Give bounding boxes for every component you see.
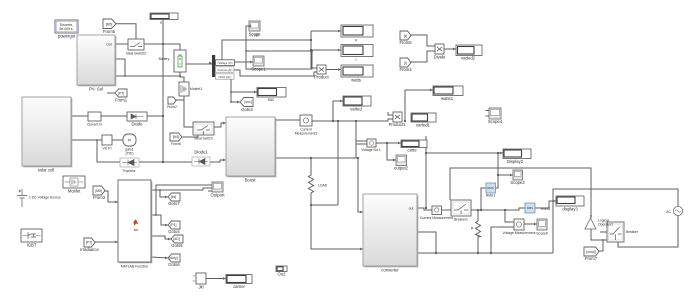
svg-text:Scope1: Scope1	[251, 67, 266, 72]
svg-text:Outport: Outport	[211, 193, 226, 198]
svg-text:Operator2: Operator2	[598, 223, 613, 227]
svg-text:Goto6: Goto6	[168, 262, 180, 267]
svg-text:Breaker1: Breaker1	[454, 218, 468, 222]
svg-text:LOAD: LOAD	[318, 184, 328, 188]
svg-text:Scope6: Scope6	[536, 232, 548, 236]
svg-text:IGBT: IGBT	[27, 243, 37, 248]
svg-text:MATLAB Function: MATLAB Function	[121, 265, 148, 269]
svg-text:RMS2: RMS2	[541, 207, 551, 211]
svg-text:Goto3: Goto3	[241, 107, 253, 112]
svg-text:Product: Product	[314, 75, 329, 80]
svg-text:Thyristor: Thyristor	[122, 169, 136, 173]
svg-text:[v]: [v]	[404, 34, 408, 38]
svg-text:Scope4: Scope4	[488, 119, 503, 124]
svg-text:[dD]: [dD]	[173, 237, 179, 241]
svg-text:Ideal Switch: Ideal Switch	[194, 137, 212, 141]
svg-text:5e-005 s.: 5e-005 s.	[59, 27, 73, 31]
svg-text:Diode1: Diode1	[194, 150, 208, 155]
svg-text:Scope3: Scope3	[510, 180, 525, 185]
svg-text:Mosfet1: Mosfet1	[190, 87, 202, 91]
svg-text:display3: display3	[562, 207, 578, 212]
svg-text:AC: AC	[666, 210, 671, 214]
svg-text:powergui: powergui	[58, 34, 75, 39]
svg-text:PI: PI	[128, 139, 131, 143]
svg-text:[P1]: [P1]	[170, 223, 176, 227]
svg-text:Current Measurement: Current Measurement	[420, 216, 453, 220]
svg-text:Breaker: Breaker	[626, 230, 639, 234]
svg-text:From1: From1	[115, 98, 128, 103]
svg-text:Diode: Diode	[132, 122, 144, 127]
svg-text:Goto4: Goto4	[168, 229, 180, 234]
svg-text:Voltage Measurement: Voltage Measurement	[503, 231, 536, 235]
svg-text:varted1: varted1	[416, 123, 431, 128]
svg-text:Divide: Divide	[434, 55, 446, 60]
svg-text:Boost: Boost	[245, 178, 257, 183]
svg-text:[M5]: [M5]	[106, 22, 113, 26]
svg-text:Goto5: Goto5	[171, 243, 183, 248]
svg-text:From3: From3	[93, 195, 106, 200]
svg-text:[soc]: [soc]	[244, 100, 251, 104]
svg-text:Product1: Product1	[389, 122, 406, 127]
svg-text:From5: From5	[103, 29, 116, 34]
svg-text:converter: converter	[381, 268, 399, 273]
svg-text:From8: From8	[399, 40, 412, 45]
svg-text:Scope: Scope	[249, 32, 262, 37]
svg-text:Voltage Nd 1: Voltage Nd 1	[361, 148, 381, 152]
svg-text:soc: soc	[268, 97, 275, 102]
svg-text:watts: watts	[351, 78, 361, 83]
svg-text:<SOC (%)>: <SOC (%)>	[218, 75, 232, 79]
svg-text:Out: Out	[106, 43, 112, 47]
svg-text:i: i	[356, 57, 357, 62]
svg-text:[int]: [int]	[171, 195, 177, 199]
svg-text:From7: From7	[585, 256, 598, 261]
svg-text:Jkl: Jkl	[198, 285, 203, 290]
svg-text:Battery: Battery	[159, 57, 170, 61]
svg-text:Ou2: Ou2	[278, 272, 287, 277]
svg-text:(PID): (PID)	[126, 152, 134, 156]
svg-text:out: out	[409, 207, 414, 211]
svg-text:[duty]: [duty]	[169, 256, 177, 260]
svg-text:From4: From4	[399, 67, 412, 72]
svg-text:PV- Sol: PV- Sol	[89, 87, 103, 92]
svg-text:<Voltage (V)>: <Voltage (V)>	[217, 61, 233, 65]
svg-text:<Current (A)>: <Current (A)>	[217, 68, 233, 72]
svg-text:[M5]: [M5]	[95, 189, 102, 193]
svg-text:Current In: Current In	[87, 123, 102, 127]
svg-text:[PT]: [PT]	[118, 91, 124, 95]
svg-text:[cond]: [cond]	[586, 250, 595, 254]
svg-text:Goto7: Goto7	[168, 201, 180, 206]
svg-text:output2: output2	[394, 166, 409, 171]
svg-text:RMS: RMS	[527, 206, 533, 210]
svg-text:watts1: watts1	[441, 96, 454, 101]
svg-text:Mosfet: Mosfet	[68, 189, 81, 194]
svg-text:a: a	[160, 21, 162, 25]
svg-text:From2: From2	[167, 105, 177, 109]
svg-text:varted2: varted2	[461, 56, 476, 61]
svg-text:RMS: RMS	[487, 186, 493, 190]
svg-text:1 DC Voltage Source: 1 DC Voltage Source	[29, 196, 61, 200]
svg-text:Display2: Display2	[507, 159, 524, 164]
svg-text:[PT]: [PT]	[86, 241, 92, 245]
svg-text:Measurement1: Measurement1	[295, 132, 318, 136]
svg-text:Irradiance: Irradiance	[80, 247, 99, 252]
svg-text:[M3]: [M3]	[173, 135, 180, 139]
svg-text:Vfc PI: Vfc PI	[102, 147, 111, 151]
svg-text:fcn: fcn	[134, 228, 139, 232]
svg-text:Ideal Switch2: Ideal Switch2	[126, 52, 146, 56]
svg-text:carte: carte	[407, 148, 417, 153]
svg-text:RMS1: RMS1	[486, 194, 496, 198]
svg-text:varted: varted	[350, 107, 362, 112]
svg-text:solar cell: solar cell	[38, 168, 55, 173]
svg-text:From6: From6	[171, 142, 181, 146]
svg-text:[i]: [i]	[404, 61, 407, 65]
svg-text:carrier: carrier	[233, 284, 245, 289]
